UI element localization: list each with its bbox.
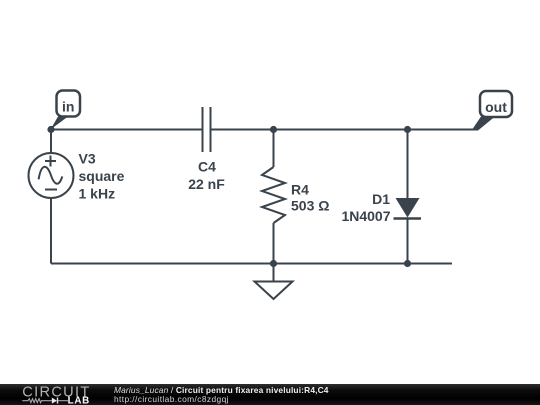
svg-text:1 kHz: 1 kHz: [79, 186, 116, 202]
wire top-left segment: [51, 129, 203, 131]
wire V3 bottom lead: [50, 198, 52, 264]
logo resistor squiggle and wire: [22, 398, 68, 404]
svg-text:R4: R4: [291, 182, 309, 198]
wire D1 bottom lead: [407, 219, 409, 264]
resistor R4 (zigzag): [262, 167, 285, 223]
diode D1 anode triangle: [396, 198, 420, 218]
CircuitLab logo: [0, 384, 100, 405]
footer bar: [0, 384, 540, 405]
node "out" terminal flag box: [480, 91, 512, 117]
svg-text:in: in: [62, 99, 74, 115]
capacitor C4 (two plates): [203, 107, 211, 152]
wire R4 top lead: [273, 130, 275, 168]
svg-text:C4: C4: [198, 159, 216, 175]
svg-text:22 nF: 22 nF: [188, 176, 225, 192]
wire top-right segment: [211, 129, 474, 131]
node "in" terminal flag tail: [51, 117, 69, 130]
svg-text:LAB: LAB: [68, 395, 90, 405]
junction dot: top wire / R4: [270, 126, 277, 133]
wire D1 top lead: [407, 130, 409, 199]
junction dot: top wire / D1: [404, 126, 411, 133]
ground symbol: [255, 282, 293, 300]
wire bottom rail: [51, 263, 452, 265]
wire ground stub: [273, 264, 275, 282]
svg-text:1N4007: 1N4007: [341, 208, 390, 224]
wire V3 top lead: [50, 130, 52, 154]
node "in" terminal flag box: [57, 91, 81, 117]
svg-text:503 Ω: 503 Ω: [291, 198, 329, 214]
svg-text:square: square: [79, 168, 125, 184]
svg-text:V3: V3: [79, 151, 96, 167]
junction dot: bottom rail / D1: [404, 260, 411, 267]
logo diode symbol: [52, 398, 57, 404]
voltage source V3 (sine symbol, + and - marks): [29, 153, 74, 198]
node "in" junction dot: [47, 126, 54, 133]
svg-text:D1: D1: [372, 191, 390, 207]
diode D1 cathode bar: [394, 217, 422, 219]
node "out" terminal flag tail: [472, 117, 496, 131]
junction dot: bottom rail / R4 / ground: [270, 260, 277, 267]
wire R4 bottom lead: [273, 223, 275, 264]
svg-text:out: out: [485, 99, 507, 115]
